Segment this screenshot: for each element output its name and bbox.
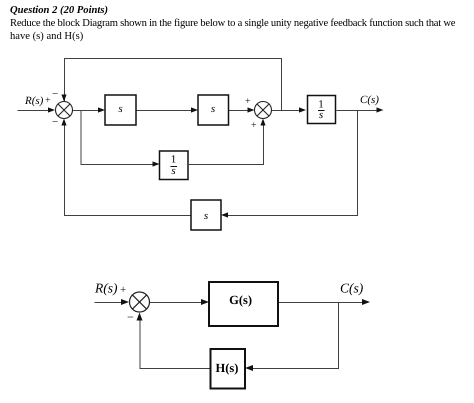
- wire: G(s) to C(s): [279, 302, 366, 304]
- summer S1: [56, 102, 73, 119]
- svg-text:R(s): R(s): [94, 281, 118, 296]
- svg-text:s: s: [171, 165, 175, 177]
- arrow into H(s): [245, 365, 253, 371]
- svg-text:R(s): R(s): [24, 95, 44, 107]
- svg-text:−: −: [52, 116, 58, 128]
- labels top diagram: [24, 88, 379, 131]
- wire: bottom feedback right vertical: [227, 111, 358, 216]
- svg-text:C(s): C(s): [360, 94, 379, 106]
- block s2: [198, 95, 229, 125]
- wire: s1 to s2: [137, 110, 194, 112]
- arrowheads top diagram: [48, 95, 384, 218]
- wire: bottom s out to S1 bottom: [65, 125, 192, 216]
- svg-text:C(s): C(s): [340, 281, 364, 296]
- arrowheads bottom diagram: [121, 299, 370, 371]
- wire: top feedback horizontal: [65, 59, 282, 111]
- arrow into s1: [98, 107, 105, 112]
- svg-text:1: 1: [171, 154, 177, 166]
- svg-text:s: s: [204, 210, 208, 222]
- svg-text:+: +: [251, 120, 257, 131]
- summer S2: [255, 102, 272, 119]
- block s bottom: [191, 200, 221, 230]
- arrow into S1 from left: [48, 107, 55, 112]
- block s1: [105, 95, 136, 125]
- svg-text:−: −: [52, 88, 58, 100]
- wire: S1 output to block s1: [73, 110, 101, 112]
- arrow into S1 from top: [61, 95, 66, 102]
- arrow into G(s): [201, 299, 209, 305]
- svg-text:H(s): H(s): [216, 361, 239, 375]
- svg-text:s: s: [211, 103, 215, 115]
- block G(s): [209, 282, 278, 326]
- arrow into S1 from bottom: [61, 119, 66, 126]
- svg-text:+: +: [120, 284, 126, 296]
- labels bottom diagram: [94, 281, 364, 325]
- arrow into S3 from bottom: [137, 313, 143, 321]
- summer S3: [130, 292, 150, 312]
- svg-text:−: −: [127, 310, 134, 324]
- arrow into S2 from bottom: [260, 119, 265, 126]
- arrow C(s) output: [362, 299, 370, 305]
- wire: S3 to G(s): [150, 302, 205, 304]
- wire: input R(s) to summer S3: [95, 302, 124, 304]
- wire: mid branch down to mid 1/s: [81, 111, 156, 165]
- arrow C(s) output: [377, 107, 384, 112]
- arrow into s2: [191, 107, 198, 112]
- arrow into 1/s right: [299, 107, 306, 112]
- wire: S2 output to block 1/s: [272, 110, 302, 112]
- svg-text:s: s: [319, 109, 323, 121]
- svg-text:s: s: [118, 103, 122, 115]
- arrow into S3 from left: [121, 299, 129, 305]
- wire: 1/s output to C(s): [337, 110, 380, 112]
- wire: takeoff down to H(s): [252, 303, 339, 369]
- svg-text:+: +: [45, 95, 51, 106]
- wire: mid 1/s to S2 bottom: [189, 125, 264, 165]
- block 1/s mid: [160, 151, 189, 180]
- svg-text:+: +: [245, 96, 251, 107]
- block H(s): [211, 349, 246, 389]
- arrow into bottom s: [221, 212, 228, 217]
- arrow into mid 1/s: [153, 161, 160, 166]
- arrow into S2 from left: [248, 107, 255, 112]
- svg-text:G(s): G(s): [229, 293, 252, 307]
- block 1/s right: [308, 96, 336, 124]
- wire: input R(s) to summer S1: [18, 110, 51, 112]
- wire: s2 to summer S2: [229, 110, 251, 112]
- wire: H(s) out to S3 bottom: [140, 318, 211, 369]
